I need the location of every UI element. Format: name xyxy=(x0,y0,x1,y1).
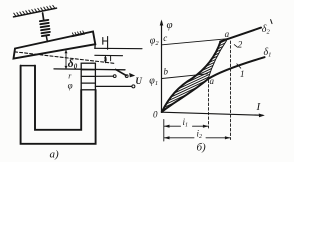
svg-text:a: a xyxy=(210,76,215,86)
svg-text:c: c xyxy=(163,33,167,43)
svg-text:б): б) xyxy=(197,142,207,154)
svg-text:φ: φ xyxy=(167,19,173,31)
svg-text:2: 2 xyxy=(238,39,243,49)
svg-text:а): а) xyxy=(50,149,60,161)
svg-text:b: b xyxy=(164,67,169,77)
svg-text:0: 0 xyxy=(153,110,158,120)
svg-text:U: U xyxy=(135,76,142,86)
svg-text:φ: φ xyxy=(68,81,73,91)
svg-text:a: a xyxy=(225,29,230,39)
svg-text:1: 1 xyxy=(240,69,245,79)
